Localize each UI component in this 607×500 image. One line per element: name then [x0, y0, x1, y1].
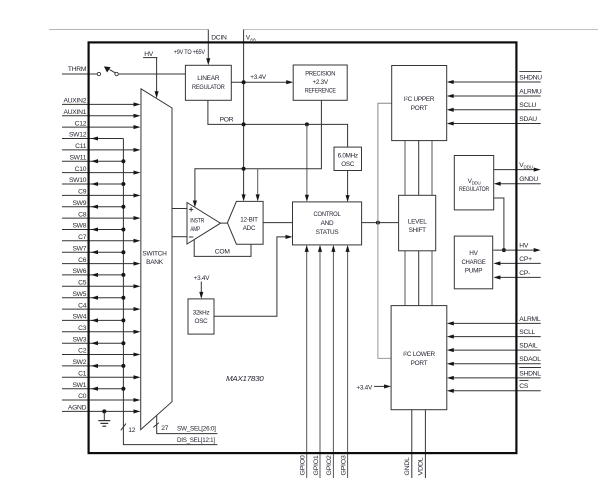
svg-text:+3.4V: +3.4V	[250, 74, 267, 81]
svg-text:GNDL: GNDL	[404, 457, 411, 476]
wire VDDL	[424, 410, 426, 478]
svg-text:PRECISION: PRECISION	[305, 71, 336, 78]
svg-text:SW6: SW6	[72, 268, 86, 275]
wire amp input -	[172, 236, 187, 238]
wire to I2C upper port	[378, 103, 392, 222]
svg-text:SHDNU: SHDNU	[519, 74, 542, 81]
pin ALRML wire	[447, 321, 541, 325]
pin SCLL wire	[447, 335, 541, 339]
wire 32kHz osc to control	[214, 235, 293, 316]
wire SW_SEL from switch bank	[157, 416, 218, 434]
pin SCLU wire	[447, 108, 541, 112]
svg-text:AMP: AMP	[190, 226, 200, 233]
svg-text:AUXIN2: AUXIN2	[64, 98, 87, 105]
pin C7 lead wire	[62, 239, 141, 243]
wire DCIN lead	[49, 30, 210, 66]
svg-text:VDDU: VDDU	[519, 162, 532, 170]
svg-text:SW_SEL[26:0]: SW_SEL[26:0]	[177, 425, 216, 432]
wire +3.4V regulator output to reference	[231, 80, 293, 84]
svg-text:SHDNL: SHDNL	[519, 370, 541, 377]
svg-text:C8: C8	[78, 211, 87, 218]
junction SW6 bus	[121, 273, 125, 277]
svg-text:6.0MHz: 6.0MHz	[338, 152, 358, 159]
svg-text:CS: CS	[519, 383, 529, 390]
pin label CS	[519, 380, 529, 390]
wire I2C bus line 2 lower segment	[418, 251, 420, 306]
svg-text:C2: C2	[78, 348, 87, 355]
pin SW12 lead wire	[62, 136, 123, 140]
svg-text:HV: HV	[469, 250, 478, 257]
pin GNDU wire	[494, 182, 541, 186]
svg-text:REGULATOR: REGULATOR	[459, 186, 490, 193]
oscillator 6.0MHz block	[334, 147, 362, 170]
svg-text:MAX17830: MAX17830	[226, 374, 265, 383]
svg-text:+2.3V: +2.3V	[313, 79, 329, 86]
bus width marker 12	[121, 424, 136, 434]
wire GPIO2	[331, 245, 335, 478]
svg-text:SW7: SW7	[72, 245, 86, 252]
svg-text:GPIO1: GPIO1	[313, 455, 320, 476]
pin SW3 lead wire	[62, 341, 123, 345]
svg-text:PUMP: PUMP	[465, 267, 482, 274]
pin SW9 lead wire	[62, 205, 123, 209]
svg-text:GPIO2: GPIO2	[326, 455, 333, 476]
adc 12-bit	[227, 201, 263, 244]
svg-text:SW10: SW10	[69, 177, 87, 184]
wire POR branch to control	[305, 124, 309, 201]
wire to I2C lower port	[378, 223, 391, 359]
junction SW10 bus	[121, 182, 125, 186]
pin THRM lead wire	[62, 73, 97, 75]
svg-text:SW1: SW1	[72, 382, 86, 389]
pin SW7 lead wire	[62, 250, 123, 254]
wire I2C bus line 3 lower segment	[431, 251, 433, 306]
svg-text:C0: C0	[78, 393, 87, 400]
pin SW6 lead wire	[62, 273, 123, 277]
pin ALRMU wire	[447, 94, 541, 98]
svg-text:SCLL: SCLL	[519, 329, 535, 336]
svg-text:VAA: VAA	[246, 34, 257, 42]
svg-text:C6: C6	[78, 257, 87, 264]
wire I2C bus line 1 lower segment	[404, 251, 406, 306]
svg-text:OSC: OSC	[195, 318, 209, 325]
pin HV wire	[493, 248, 540, 252]
pin C0 lead wire	[62, 398, 141, 402]
svg-text:VDDL: VDDL	[417, 457, 424, 476]
wire +3.4V to I2C lower port	[374, 384, 391, 388]
svg-text:ADC: ADC	[243, 225, 256, 232]
svg-text:SW8: SW8	[72, 223, 86, 230]
junction reference / VAA	[242, 167, 246, 171]
wire I2C bus line 1 upper segment	[404, 141, 406, 196]
svg-text:C5: C5	[78, 280, 87, 287]
wire GNDL	[411, 410, 413, 478]
VDDU regulator block	[454, 156, 493, 210]
svg-text:I2C UPPER: I2C UPPER	[404, 95, 435, 103]
pin CP+ wire	[493, 261, 540, 265]
svg-text:DIS_SEL[12:1]: DIS_SEL[12:1]	[177, 437, 215, 444]
svg-text:12: 12	[128, 427, 135, 434]
svg-text:C11: C11	[75, 143, 87, 150]
wire control to level shift	[362, 222, 399, 224]
junction SW3 bus	[121, 341, 125, 345]
svg-text:INSTR: INSTR	[190, 217, 205, 224]
pin AUXIN2 lead wire	[62, 102, 141, 106]
svg-text:SDAU: SDAU	[519, 116, 537, 123]
wire HV into switch bank	[155, 58, 159, 99]
svg-text:LEVEL: LEVEL	[408, 218, 427, 225]
pin SW11 lead wire	[62, 159, 123, 163]
svg-text:SW9: SW9	[72, 200, 86, 207]
I2C upper port block	[392, 66, 447, 141]
pin SW1 lead wire	[62, 387, 123, 391]
pin C10 lead wire	[62, 171, 141, 175]
wire GPIO1	[318, 245, 322, 478]
svg-text:SDAIL: SDAIL	[519, 343, 538, 350]
svg-text:CP-: CP-	[519, 270, 530, 277]
instrumentation amplifier	[187, 203, 221, 245]
svg-text:ALRMU: ALRMU	[519, 88, 542, 95]
svg-text:STATUS: STATUS	[316, 229, 339, 236]
svg-text:CHARGE: CHARGE	[462, 259, 486, 266]
HV charge pump block	[454, 236, 492, 289]
svg-text:SW12: SW12	[69, 132, 87, 139]
pin SDAOL wire	[447, 362, 541, 366]
svg-text:+3.4V: +3.4V	[356, 385, 373, 392]
chip boundary	[89, 42, 517, 453]
wire amp output to ADC	[220, 222, 228, 224]
junction POR / VAA	[242, 122, 246, 126]
svg-text:COM: COM	[215, 248, 231, 255]
wire 6.0MHz osc to control	[346, 171, 350, 203]
wire COM loop	[194, 239, 251, 256]
svg-text:27: 27	[161, 425, 168, 432]
junction AGND	[102, 409, 106, 413]
svg-text:SW3: SW3	[72, 336, 86, 343]
svg-text:SW4: SW4	[72, 314, 86, 321]
control and status block	[293, 202, 362, 245]
svg-text:GPIO0: GPIO0	[300, 455, 307, 476]
svg-text:SW11: SW11	[69, 154, 86, 161]
thermal switch (THRM)	[97, 66, 118, 75]
pin SW8 lead wire	[62, 227, 123, 231]
pin C1 lead wire	[62, 375, 141, 379]
svg-text:C1: C1	[78, 371, 87, 378]
I2C lower port block	[391, 306, 447, 410]
junction SW1 bus	[121, 387, 125, 391]
wire GPIO0	[305, 245, 309, 478]
svg-text:GNDU: GNDU	[519, 176, 538, 183]
junction POR branch	[305, 122, 309, 126]
pin C3 lead wire	[62, 330, 141, 334]
wire amp input +	[172, 208, 187, 210]
pin CP- wire	[493, 275, 540, 279]
wire +3.4V into 32kHz osc	[199, 282, 203, 299]
junction SW7 bus	[121, 250, 125, 254]
pin SW4 lead wire	[62, 318, 123, 322]
svg-text:C4: C4	[78, 302, 87, 309]
bus width marker 27	[153, 423, 169, 432]
svg-text:POR: POR	[220, 117, 234, 124]
svg-text:C9: C9	[78, 189, 87, 196]
pin CS wire	[447, 389, 541, 393]
svg-text:ALRML: ALRML	[519, 316, 541, 323]
junction +3.4V / VAA	[242, 80, 246, 84]
wire ADC to control	[263, 222, 292, 224]
svg-text:SW5: SW5	[72, 291, 86, 298]
pin C4 lead wire	[62, 307, 141, 311]
net label HV (top)	[143, 51, 157, 58]
pin SHDNU wire	[447, 80, 541, 84]
svg-text:REFERENCE: REFERENCE	[305, 87, 336, 94]
svg-text:C7: C7	[78, 234, 87, 241]
switch bank	[141, 89, 172, 430]
pin SHDNL wire	[447, 376, 541, 380]
svg-text:AND: AND	[321, 220, 334, 227]
svg-text:SWITCH: SWITCH	[142, 250, 167, 257]
junction SW11 bus	[121, 159, 125, 163]
svg-text:I2C LOWER: I2C LOWER	[403, 350, 435, 358]
wire reference branch to ADC	[256, 169, 260, 202]
svg-text:+9V TO +65V: +9V TO +65V	[174, 49, 206, 56]
precision reference block	[293, 65, 347, 100]
pin SW5 lead wire	[62, 296, 123, 300]
svg-text:C10: C10	[75, 166, 87, 173]
svg-text:C12: C12	[75, 120, 87, 127]
svg-text:C3: C3	[78, 325, 87, 332]
linear regulator block	[185, 65, 231, 100]
svg-text:PORT: PORT	[411, 105, 428, 112]
wire VAA lead	[244, 29, 598, 31]
svg-text:AUXIN1: AUXIN1	[64, 109, 87, 116]
svg-text:+3.4V: +3.4V	[194, 275, 211, 282]
pin SDAIL wire	[447, 348, 541, 352]
svg-text:12-BIT: 12-BIT	[240, 216, 258, 223]
wire VAA vertical to ADC	[242, 30, 246, 202]
pin SDAU wire	[447, 121, 541, 125]
svg-text:32kHz: 32kHz	[193, 310, 210, 317]
pin SW2 lead wire	[62, 364, 123, 368]
junction control/ports	[376, 221, 380, 225]
pin AGND lead wire	[62, 409, 141, 413]
pin C11 lead wire	[62, 148, 141, 152]
pin SW10 lead wire	[62, 182, 123, 186]
junction SW5 bus	[121, 296, 125, 300]
pin C6 lead wire	[62, 262, 141, 266]
svg-text:DCIN: DCIN	[211, 34, 227, 41]
wire POR	[208, 100, 348, 147]
svg-text:OSC: OSC	[341, 161, 355, 168]
svg-text:GPIO3: GPIO3	[340, 455, 347, 476]
svg-text:CONTROL: CONTROL	[314, 211, 342, 218]
svg-text:AGND: AGND	[68, 405, 87, 412]
oscillator 32kHz block	[188, 299, 214, 334]
svg-text:THRM: THRM	[68, 66, 87, 73]
svg-text:SCLU: SCLU	[519, 102, 536, 109]
wire GPIO3	[346, 245, 350, 478]
pin C8 lead wire	[62, 216, 141, 220]
junction SW9 bus	[121, 205, 125, 209]
svg-text:BANK: BANK	[146, 259, 164, 266]
wire I2C bus line 2 upper segment	[418, 141, 420, 196]
svg-text:LINEAR: LINEAR	[197, 75, 220, 82]
svg-text:REGULATOR: REGULATOR	[192, 84, 225, 91]
svg-text:SDAOL: SDAOL	[519, 356, 541, 363]
svg-text:SHIFT: SHIFT	[409, 227, 427, 234]
wire SW_SEL bus vertical (discharge select)	[123, 139, 217, 445]
wire I2C bus line 3 upper segment	[431, 141, 433, 196]
junction SW8 bus	[121, 228, 125, 232]
pin C12 lead wire	[62, 125, 141, 129]
wire THRM to linear regulator	[118, 73, 185, 75]
pin label SHDNU	[519, 72, 542, 82]
wire VDDU regulator to HV net	[494, 198, 504, 250]
pin C9 lead wire	[62, 193, 141, 197]
junction HV charge pump output	[502, 248, 506, 252]
pin C2 lead wire	[62, 352, 141, 356]
pin AUXIN1 lead wire	[62, 114, 141, 118]
pin C5 lead wire	[62, 284, 141, 288]
pin VDDU wire	[494, 168, 541, 172]
svg-text:SW2: SW2	[72, 359, 86, 366]
wire reference output to instr amp	[193, 100, 322, 207]
junction SW2 bus	[121, 364, 125, 368]
svg-text:CP+: CP+	[519, 256, 532, 263]
level shift block	[399, 195, 436, 251]
svg-text:HV: HV	[519, 243, 529, 250]
pin label SHDNL	[519, 368, 541, 378]
junction SW4 bus	[121, 318, 125, 322]
svg-text:PORT: PORT	[411, 360, 428, 367]
ground symbol	[98, 411, 110, 426]
